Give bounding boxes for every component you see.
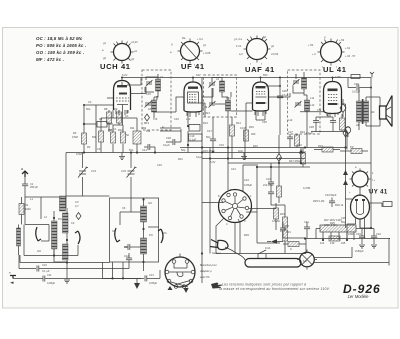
capacitor C4 grid UCH [97, 122, 107, 128]
capacitor C11 [43, 276, 45, 282]
svg-text:F 21: F 21 [236, 44, 242, 48]
svg-text:300: 300 [251, 132, 256, 136]
svg-text:0,5M: 0,5M [76, 152, 82, 156]
svg-text:2x0,05µF: 2x0,05µF [263, 183, 274, 187]
svg-text:C18: C18 [166, 136, 171, 140]
wire UCH cathode column down [113, 110, 127, 125]
trimmer C16 [145, 101, 152, 108]
svg-text:150Ω: 150Ω [348, 232, 354, 236]
switch arm osc right [158, 229, 163, 243]
switch arm osc left [115, 228, 120, 242]
svg-text:R1: R1 [25, 203, 29, 207]
padder cap C9 [128, 244, 130, 250]
heater pin stubs UF41 [187, 112, 199, 117]
capacitor C22 [270, 163, 272, 182]
capacitor C14 [148, 144, 150, 150]
svg-text:R13: R13 [205, 111, 210, 115]
wire UAF grid return [256, 111, 265, 120]
wire UAF41 anode [266, 78, 290, 98]
svg-text:UF 41: UF 41 [181, 62, 205, 71]
svg-text:130: 130 [330, 241, 335, 245]
wire lamp to heater string [313, 247, 389, 263]
resistor R19 [283, 217, 288, 228]
svg-text:0,1µF: 0,1µF [190, 137, 197, 141]
svg-text:0,5MΩ: 0,5MΩ [272, 219, 280, 223]
variable capacitor CV1 [78, 167, 88, 178]
transformer core [361, 99, 364, 124]
wire AVC rail [180, 147, 346, 149]
svg-text:0,1µF: 0,1µF [306, 131, 313, 135]
svg-text:UY 41: UY 41 [369, 190, 388, 196]
svg-text:UAF 41: UAF 41 [245, 65, 275, 74]
svg-text:S: S [290, 247, 292, 251]
wire right edge drop [389, 239, 390, 266]
wire mid rail right [202, 130, 305, 159]
wire B+ to bank [360, 219, 371, 228]
IF transformer MF1 shield (dashed) [142, 70, 171, 130]
svg-text:R14: R14 [236, 121, 241, 125]
wire upper gnd rail [19, 255, 36, 269]
svg-text:C4: C4 [99, 117, 103, 121]
svg-text:0,05µF: 0,05µF [149, 281, 158, 285]
svg-text:f +: f + [372, 178, 375, 182]
svg-text:OC: OC [112, 229, 116, 233]
svg-text:4,7: 4,7 [75, 204, 79, 208]
ground det rail [243, 153, 245, 157]
svg-text:+ 2: + 2 [312, 52, 316, 56]
mains cable bar [245, 259, 301, 268]
resistor R11 [133, 131, 141, 144]
wire riser x240 [238, 219, 240, 254]
capacitor C10 [37, 266, 39, 272]
wire osc CV2 column [130, 153, 132, 169]
diamond tap C3 [76, 213, 81, 220]
svg-text:R29: R29 [244, 233, 249, 237]
coil L13 box [189, 125, 200, 132]
svg-text:0,47M: 0,47M [303, 186, 310, 190]
coil L10 [226, 100, 231, 111]
fuse box on screen line [351, 75, 360, 79]
resistor R23 [322, 147, 333, 152]
svg-text:GO: GO [148, 201, 152, 205]
svg-text:R24: R24 [300, 130, 305, 134]
capacitor C1 [24, 177, 26, 184]
svg-text:R8: R8 [104, 107, 108, 111]
svg-text:50k: 50k [92, 135, 97, 139]
coil L3 [63, 213, 69, 233]
svg-text:UL 41: UL 41 [323, 65, 347, 74]
svg-text:R26 1k: R26 1k [335, 203, 344, 207]
svg-text:C9: C9 [124, 245, 128, 249]
terminal T (terre) [9, 271, 36, 284]
wire L1 drop [65, 153, 67, 197]
resistor R19 [274, 208, 279, 219]
ground triangle socket2 [183, 288, 188, 293]
svg-text:R23: R23 [318, 144, 323, 148]
svg-text:3Ω: 3Ω [371, 110, 374, 114]
svg-text:50µ: 50µ [341, 220, 346, 224]
capacitor C19 [210, 139, 216, 141]
svg-text:0,1µF: 0,1µF [163, 143, 170, 147]
switch contacts on bar [258, 250, 266, 258]
svg-text:+ 6,2: + 6,2 [197, 37, 203, 41]
capacitor C31b [306, 222, 308, 227]
trimmer C27 [295, 101, 302, 108]
svg-text:472: 472 [317, 108, 322, 112]
svg-text:C16: C16 [174, 117, 179, 121]
resistor R28 [288, 242, 299, 247]
plus mark B+ top [370, 72, 374, 78]
svg-text:C17: C17 [207, 129, 212, 133]
wire volume bus [257, 167, 280, 243]
capacitor C31 [282, 232, 284, 238]
svg-text:L11: L11 [310, 96, 315, 100]
socket diagram UY41 [349, 166, 375, 194]
junction dot [83, 104, 85, 106]
IF transformer MF2 shield (dashed) [204, 75, 237, 117]
capacitor C28 [313, 121, 319, 123]
junction node x280 [279, 77, 281, 79]
svg-text:C15: C15 [146, 92, 151, 96]
svg-text:+ 16 - 57: + 16 - 57 [345, 54, 356, 58]
wire UCH grid stub [107, 97, 113, 99]
svg-text:GO : 150 kc à 309 kc .: GO : 150 kc à 309 kc . [36, 50, 84, 55]
svg-text:250 pF: 250 pF [30, 185, 38, 189]
svg-text:C31: C31 [304, 220, 309, 224]
tube socket wiring view (UL41 base) [165, 254, 195, 291]
svg-text:R25 0,1M: R25 0,1M [313, 199, 324, 203]
svg-text:PO: PO [58, 217, 62, 221]
svg-text:245: 245 [341, 241, 346, 245]
resistor R8 [107, 112, 112, 123]
svg-text:C16: C16 [157, 163, 162, 167]
socket diagram UCH41 [102, 40, 138, 67]
wire detector to UL41 grid [300, 110, 324, 148]
wire UY41 plate [346, 199, 383, 207]
wire bank taps [316, 229, 362, 241]
svg-text:R11: R11 [130, 126, 135, 130]
junction C26 [279, 85, 281, 87]
svg-text:C14: C14 [142, 148, 147, 152]
svg-text:Secteur: Secteur [212, 251, 221, 255]
thermistor arrow [271, 239, 277, 243]
resistor R21 [340, 118, 346, 130]
svg-text:0,05µF: 0,05µF [47, 281, 56, 285]
wire second rail [20, 255, 110, 263]
wire left mid rail [66, 152, 305, 154]
svg-text:2x50µF: 2x50µF [355, 249, 364, 253]
capacitor C36 [331, 198, 333, 202]
svg-text:Branchez pour: Branchez pour [200, 263, 217, 267]
resistor surge box [383, 202, 392, 207]
svg-text:50p: 50p [129, 148, 134, 152]
note text beside socket [199, 263, 217, 279]
wire coil bottom rail [24, 225, 78, 256]
capacitor C12 [126, 258, 132, 260]
svg-text:C3: C3 [97, 147, 101, 151]
svg-text:a,3: a,3 [239, 52, 243, 56]
svg-text:C6: C6 [122, 206, 126, 210]
choke coil CH [17, 228, 21, 246]
heater pin stubs UCH41 [116, 110, 128, 115]
svg-text:Adaptez µ: Adaptez µ [199, 269, 212, 273]
svg-text:OC : 18,5 Mc à 52 Mc: OC : 18,5 Mc à 52 Mc [36, 36, 83, 41]
resistor R22 [301, 153, 306, 164]
svg-text:avec Ph.: avec Ph. [200, 275, 210, 279]
coil L6 [141, 238, 147, 254]
svg-text:0,5M: 0,5M [72, 135, 78, 139]
junction dot B+ [370, 87, 372, 89]
trimmer C25 [293, 79, 300, 86]
diamond tap AF [277, 154, 282, 162]
ground mid rail [121, 153, 123, 157]
wire CV1 column [82, 153, 84, 169]
wire UF41 cathode [198, 103, 205, 117]
svg-text:10k: 10k [203, 105, 208, 109]
capacitor C23 [268, 192, 274, 194]
svg-text:MF2: MF2 [226, 96, 232, 100]
svg-text:+6,2V: +6,2V [131, 40, 138, 44]
svg-text:T: T [9, 271, 11, 275]
svg-text:L12: L12 [310, 103, 315, 107]
electrolytic C33 [361, 229, 363, 237]
tube UF41 envelope [184, 78, 202, 113]
svg-text:C26: C26 [282, 89, 287, 93]
resistor R20 [283, 230, 288, 241]
svg-text:C30: C30 [354, 82, 359, 86]
antenna terminal A [21, 167, 28, 177]
svg-text:MF : 472 kc .: MF : 472 kc . [36, 57, 64, 62]
trimmer C15 [146, 80, 153, 87]
frequency range note text [36, 36, 86, 62]
diamond tap UL41 [340, 104, 346, 113]
diamond tap MF1 [145, 114, 150, 121]
antenna coil assembly frame [25, 196, 66, 225]
wire rectifier rail with arrows [345, 140, 347, 228]
junction osc [142, 228, 144, 230]
svg-text:0,1 µF: 0,1 µF [42, 269, 50, 273]
tube socket underside view (band switch) [218, 188, 253, 226]
svg-text:C33: C33 [356, 232, 361, 236]
svg-text:C10: C10 [42, 263, 47, 267]
svg-text:R16: R16 [249, 125, 254, 129]
coil L5 [141, 206, 147, 222]
svg-text:R17 47kΩ: R17 47kΩ [289, 159, 301, 163]
connector jack [345, 127, 350, 137]
output transformer secondary [364, 101, 369, 122]
svg-text:Ra: Ra [182, 36, 186, 40]
heater rail [216, 239, 390, 254]
socket diagram UAF41 [234, 35, 279, 66]
capacitor C26 [279, 86, 281, 96]
wire UAF cathode area [246, 103, 253, 130]
svg-text:472: 472 [153, 117, 158, 121]
label box C19 [189, 134, 203, 141]
resistor R16 [244, 130, 249, 141]
junction dots on rails [53, 77, 372, 264]
coil L8 secondary [152, 100, 157, 112]
dial lamp [297, 250, 317, 270]
svg-text:R6: R6 [108, 128, 112, 132]
resistor R1 [19, 204, 24, 215]
svg-text:R10: R10 [118, 128, 123, 132]
svg-text:6,3: 6,3 [303, 259, 307, 263]
wire MF1 internal [145, 74, 158, 118]
resistor R18 [277, 186, 282, 197]
value labels scattered [30, 72, 372, 253]
wire bottom left rail [103, 263, 142, 279]
capacitor C28b [330, 121, 336, 123]
svg-text:L12: L12 [288, 118, 293, 122]
resistor bank (mains dropper) [320, 225, 356, 232]
wire CV1 to ant coil [66, 177, 110, 196]
svg-text:Les tensions indiquées sont pr: Les tensions indiquées sont prises par r… [222, 283, 306, 287]
trimmer C21 [209, 101, 216, 108]
switch arm right PO [75, 231, 80, 244]
svg-text:MF1: MF1 [144, 121, 150, 125]
capacitor C30 [348, 78, 356, 88]
wire MF2 bottom drops [213, 117, 232, 159]
svg-text:+ 63: + 63 [339, 38, 345, 42]
svg-text:R3: R3 [73, 131, 77, 135]
wire UL41 anode [332, 78, 334, 80]
ground ant coil [66, 269, 68, 279]
svg-text:0,1: 0,1 [125, 114, 129, 118]
svg-text:R16: R16 [253, 144, 258, 148]
wire socket risers [202, 148, 258, 254]
svg-text:50p: 50p [206, 135, 211, 139]
coil L12 [305, 100, 310, 111]
output transformer primary [357, 101, 362, 122]
svg-text:110: 110 [320, 241, 325, 245]
wire osc internal [120, 198, 159, 262]
transformer TR box [351, 149, 362, 154]
diamond tap rect [343, 129, 348, 137]
svg-text:R19: R19 [280, 212, 285, 216]
svg-text:TR: TR [350, 145, 354, 149]
junction node UAF41 top [260, 77, 262, 79]
tube UAF41 envelope [253, 78, 269, 111]
svg-text:1er Modèle: 1er Modèle [348, 294, 370, 299]
svg-text:C21: C21 [231, 167, 236, 171]
svg-text:CV: CV [75, 200, 79, 204]
hand pointer icon [211, 283, 222, 289]
wire UCH grid side [84, 105, 113, 153]
wire R3 down [83, 144, 85, 153]
svg-text:la masse et correspondent au f: la masse et correspondent au fonctionnem… [219, 287, 330, 291]
svg-text:0,1: 0,1 [113, 127, 117, 131]
svg-text:6,2V: 6,2V [122, 73, 128, 77]
svg-text:0,1µF: 0,1µF [196, 155, 203, 159]
mains plug [210, 240, 245, 261]
wire UY41 bottom [347, 187, 365, 239]
resistor R4 [111, 132, 116, 143]
svg-text:R18: R18 [284, 224, 289, 228]
svg-text:R20: R20 [280, 229, 285, 233]
resistor R3 [82, 133, 87, 144]
wire resistor row [113, 118, 137, 153]
resistor R7 [99, 131, 104, 142]
wire AF feed [249, 208, 276, 210]
svg-text:C13: C13 [149, 273, 154, 277]
svg-text:C3: C3 [71, 221, 75, 225]
junction heater [322, 239, 324, 241]
wire UL41 screen [341, 104, 346, 140]
svg-text:25k: 25k [146, 129, 151, 133]
svg-text:C34 50µF: C34 50µF [325, 193, 337, 197]
coil L7 primary [156, 79, 161, 91]
svg-text:C12: C12 [124, 254, 129, 258]
wire UAF column drops [276, 163, 279, 230]
svg-text:PO : 505 kc à 1605 kc .: PO : 505 kc à 1605 kc . [36, 43, 86, 48]
junction node UF41 anode [192, 77, 194, 79]
junction dots coil [66, 239, 68, 241]
svg-text:C2: C2 [88, 100, 92, 104]
svg-text:R12: R12 [178, 157, 183, 161]
svg-text:65V: 65V [263, 73, 268, 77]
wire B+ right vertical [370, 78, 372, 229]
loudspeaker [380, 96, 393, 127]
svg-text:PO: PO [149, 233, 153, 237]
svg-text:R25: R25 [330, 221, 335, 225]
svg-text:g 1,4 a: g 1,4 a [234, 37, 242, 41]
svg-text:170V: 170V [335, 75, 341, 79]
svg-text:d 0,62: d 0,62 [271, 52, 279, 56]
socket diagram UL41 [308, 36, 356, 69]
resistor R9 [117, 112, 122, 123]
svg-text:0,1µF: 0,1µF [282, 93, 289, 97]
svg-text:C28: C28 [309, 125, 314, 129]
svg-text:0,01µF: 0,01µF [352, 90, 361, 94]
resistor R27 on heater rail [329, 236, 340, 241]
wire CV2 down [130, 177, 132, 198]
ground triangle [134, 283, 140, 289]
socket diagram UF41 [170, 36, 211, 67]
tube UCH41 envelope [114, 78, 131, 111]
electrolytic C34 [362, 229, 374, 237]
wire UF41 to MF2 [202, 88, 213, 97]
trimmer C20 [209, 81, 216, 88]
svg-text:50p: 50p [181, 148, 186, 152]
capacitor C27b [289, 134, 291, 137]
svg-text:C22: C22 [266, 177, 271, 181]
wire riser x210 [209, 148, 211, 254]
svg-text:0,3A: 0,3A [265, 246, 271, 250]
diode arrow 1 [343, 170, 348, 175]
svg-text:CV2: CV2 [121, 169, 127, 173]
variable capacitor CV2 [127, 167, 137, 178]
svg-text:0,1M: 0,1M [240, 126, 246, 130]
svg-text:UCH 41: UCH 41 [100, 62, 131, 71]
detector coil shield (dashed) [288, 70, 321, 134]
svg-text:HP: HP [356, 123, 360, 127]
heater pin stubs UAF41 [255, 111, 266, 116]
svg-text:50p: 50p [86, 107, 91, 111]
svg-text:GO: GO [37, 249, 41, 253]
junction dots bottom rail [111, 277, 113, 279]
svg-text:C11: C11 [47, 273, 52, 277]
wire UCH41 anode to MF1 [127, 78, 146, 94]
svg-text:C19: C19 [219, 143, 224, 147]
wire MF2 internal [212, 78, 228, 118]
svg-text:+ 0,65: + 0,65 [203, 51, 211, 55]
wire MF2 to UAF41 [231, 92, 253, 111]
diode arrow 2 [343, 180, 348, 185]
coil L11 [302, 78, 307, 89]
coil L2 [52, 221, 58, 249]
svg-text:CV1: CV1 [91, 169, 97, 173]
svg-text:+ 61: + 61 [345, 46, 351, 50]
